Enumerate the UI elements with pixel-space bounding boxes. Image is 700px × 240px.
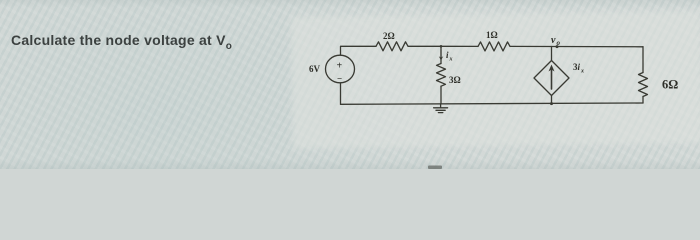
wire: bottom rail — [341, 103, 644, 104]
svg-text:x: x — [449, 57, 453, 63]
resistor R 2ohm (horizontal zigzag) — [376, 42, 408, 51]
svg-text:+: + — [337, 61, 343, 72]
wire: 3-ohm bottom to bottom rail — [440, 86, 442, 104]
voltage source V1 6V (circle) — [326, 55, 355, 83]
svg-text:6V: 6V — [309, 64, 321, 74]
svg-text:3i: 3i — [573, 62, 581, 72]
node A branch wire down — [440, 46, 442, 63]
bottom-edge smudge — [428, 166, 442, 170]
wire: node A to 1-ohm — [441, 45, 478, 47]
wire: 6-ohm bottom to bottom-right corner — [642, 97, 644, 104]
svg-text:6Ω: 6Ω — [662, 78, 678, 92]
current arrow ix (down) — [440, 50, 442, 59]
arrow inside diamond (up) — [551, 69, 553, 89]
junction dot bottom of diamond — [550, 102, 553, 105]
question text — [11, 32, 232, 52]
resistor R 3ohm (vertical zigzag) — [437, 64, 446, 87]
resistor R 1ohm (horizontal zigzag) — [478, 42, 510, 51]
ground symbol — [440, 104, 442, 108]
wire: right side vertical down to 6-ohm — [642, 47, 644, 73]
wire: 2-ohm to node A — [409, 45, 442, 47]
junction node Vo dot — [556, 45, 559, 48]
dependent current source (diamond) — [534, 61, 569, 96]
junction dot node A — [440, 45, 443, 48]
svg-text:1Ω: 1Ω — [486, 30, 498, 40]
wire: 1-ohm to node Vo to top-right corner — [511, 45, 644, 47]
svg-text:x: x — [580, 69, 584, 75]
wire: diamond bottom to bottom rail — [551, 96, 553, 104]
svg-text:o: o — [557, 39, 561, 47]
wire: diamond top to top rail — [551, 47, 553, 61]
wire: top-left from source top to 2-ohm resistor — [341, 46, 377, 55]
resistor R 6ohm (vertical zigzag) — [639, 73, 648, 97]
svg-text:2Ω: 2Ω — [383, 31, 395, 41]
svg-text:v: v — [551, 35, 556, 46]
svg-text:−: − — [337, 74, 342, 84]
svg-text:3Ω: 3Ω — [449, 75, 461, 85]
wire: bottom-left up to source bottom — [340, 83, 342, 104]
